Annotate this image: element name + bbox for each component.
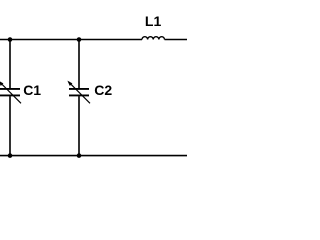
wire: top rail, left segment from left edge to L1 [0, 39, 142, 41]
svg-text:L1: L1 [145, 13, 162, 29]
node: junction dot bottom rail / C1 branch [8, 153, 13, 158]
node: junction dot top rail / C2 branch [77, 37, 82, 42]
wire: C2 top lead [78, 40, 80, 89]
node: junction dot bottom rail / C2 branch [77, 153, 82, 158]
wire: bottom rail across full width [0, 155, 187, 157]
svg-text:C2: C2 [94, 82, 112, 98]
wire: C1 top lead [9, 40, 11, 89]
node: junction dot top rail / C1 branch [8, 37, 13, 42]
svg-text:C1: C1 [23, 82, 41, 98]
capacitor C2 (variable trimmer) [67, 81, 90, 104]
wire: C2 bottom lead [78, 96, 80, 155]
capacitor C1 (variable trimmer) [0, 81, 21, 104]
wire: C1 bottom lead [9, 96, 11, 155]
inductor L1 [142, 37, 164, 40]
wire: top rail, right segment from L1 to right edge [165, 39, 188, 41]
